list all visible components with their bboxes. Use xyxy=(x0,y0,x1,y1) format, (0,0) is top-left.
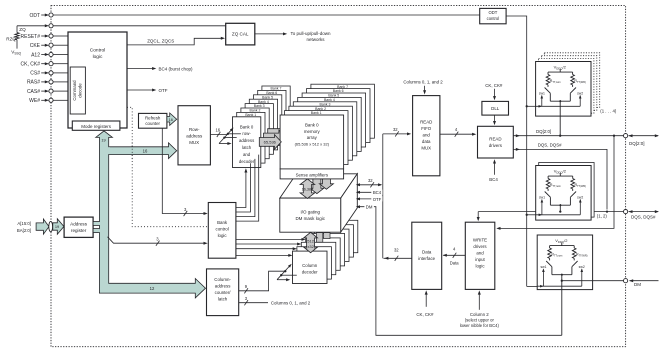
svg-text:address: address xyxy=(186,134,203,139)
terminal at border y=81.9 xyxy=(49,80,53,84)
svg-text:Data: Data xyxy=(450,261,460,266)
svg-text:12: 12 xyxy=(150,286,155,291)
svg-text:decode: decode xyxy=(77,83,82,98)
terminal at border y=72.9 xyxy=(49,71,53,75)
wire OTF output xyxy=(127,89,154,91)
svg-text:counter/: counter/ xyxy=(215,290,232,295)
svg-text:decoder: decoder xyxy=(239,159,255,164)
svg-text:DQ[2:0]: DQ[2:0] xyxy=(536,129,551,134)
bus 4 READ FIFO to READ drivers xyxy=(440,133,474,135)
svg-text:Address: Address xyxy=(70,221,88,226)
wire dotted over teal buses xyxy=(131,143,133,160)
wire bank control to latch stack verticals xyxy=(236,170,246,208)
svg-text:drivers: drivers xyxy=(489,143,503,148)
block Refresh counter xyxy=(139,113,167,128)
wire RAS# stub xyxy=(41,81,46,83)
wire address trunk to bank control 3 xyxy=(108,237,206,243)
svg-text:WE#: WE# xyxy=(29,98,40,104)
wire DQ read line xyxy=(513,135,623,137)
svg-text:interface: interface xyxy=(418,256,435,261)
svg-text:CK, CK#: CK, CK# xyxy=(21,62,41,68)
svg-text:(x32): (x32) xyxy=(306,244,316,249)
wire ZQCL ZQCS to ZQ CAL xyxy=(127,38,223,45)
svg-text:and: and xyxy=(243,152,251,157)
wire refresh counter to bank control 3 xyxy=(162,128,205,213)
wire ODT control into DQS network xyxy=(526,214,528,216)
bus vertical trunk with 19 arrow up and 12 arrow right xyxy=(96,131,206,298)
ODT network DQ xyxy=(536,62,591,117)
svg-text:RZQ: RZQ xyxy=(6,37,16,42)
wire OTF into I/O gating xyxy=(357,198,383,200)
svg-text:Bank 0: Bank 0 xyxy=(240,124,254,129)
wire DM pad line xyxy=(562,280,624,282)
svg-text:OTF: OTF xyxy=(159,88,168,93)
wire ZQ stub xyxy=(17,25,47,27)
svg-text:Mode registers: Mode registers xyxy=(81,124,112,129)
svg-text:MUX: MUX xyxy=(421,145,431,150)
block Column-address counter latch xyxy=(207,269,239,316)
svg-text:19: 19 xyxy=(101,137,105,142)
svg-text:lower nibble for BC4): lower nibble for BC4) xyxy=(460,323,500,328)
block DLL xyxy=(482,101,509,115)
svg-text:Bank 0: Bank 0 xyxy=(305,122,319,127)
svg-text:Bank 6: Bank 6 xyxy=(333,89,344,93)
svg-text:array: array xyxy=(307,135,318,140)
bus 16384 sliver arrows xyxy=(310,174,324,194)
wire CS# to control logic xyxy=(53,72,68,74)
svg-text:Bank 2: Bank 2 xyxy=(315,107,326,111)
wire dotted control to bank control logic xyxy=(127,107,208,226)
bus 32 I/O gating bidirectional xyxy=(357,184,381,186)
svg-text:32: 32 xyxy=(393,127,398,132)
svg-text:A[15:0]: A[15:0] xyxy=(17,221,31,226)
svg-text:MUX: MUX xyxy=(189,140,199,145)
svg-text:READ: READ xyxy=(489,137,501,142)
svg-text:32: 32 xyxy=(394,248,399,253)
ODT network DM xyxy=(537,235,592,290)
svg-text:ODT: ODT xyxy=(488,10,497,15)
wire ODT control into DQ network xyxy=(526,105,528,107)
svg-text:Refresh: Refresh xyxy=(145,115,161,120)
svg-text:logic: logic xyxy=(93,54,103,60)
ODT network DQ dashed stack xyxy=(544,53,599,108)
wire ODT control into DM network xyxy=(527,285,538,287)
svg-text:BC4: BC4 xyxy=(373,190,382,195)
svg-text:Data: Data xyxy=(422,250,432,255)
terminal DM xyxy=(624,279,628,283)
bus 19 into address register xyxy=(53,219,64,235)
svg-text:ZQ: ZQ xyxy=(19,27,26,32)
block bank row-address latch and memory array stacks xyxy=(262,86,290,137)
svg-text:RESET#: RESET# xyxy=(21,34,41,40)
svg-text:(65,536 x 512 x 32): (65,536 x 512 x 32) xyxy=(295,142,330,147)
svg-text:DM: DM xyxy=(634,282,641,287)
terminal at border y=45.2 xyxy=(49,43,53,47)
svg-text:CKE: CKE xyxy=(30,43,41,49)
bus 512 sliver stubs xyxy=(316,233,322,243)
wire RESET# stub xyxy=(41,35,46,37)
bus 65536 latch to array xyxy=(259,135,281,150)
bus address register to trunk stubs xyxy=(93,222,100,226)
svg-text:memory: memory xyxy=(304,129,321,134)
terminal at border y=36.0 xyxy=(49,34,53,38)
block READ FIFO and data MUX xyxy=(413,96,440,176)
svg-text:READ: READ xyxy=(420,119,432,124)
wire BC4 burst chop output xyxy=(127,68,154,70)
wire WE# stub xyxy=(41,99,46,101)
svg-text:CK, CK#: CK, CK# xyxy=(416,312,434,317)
svg-text:control: control xyxy=(487,16,500,21)
wire RAS# to control logic xyxy=(53,81,68,83)
wire RESET# to control logic xyxy=(53,35,68,37)
terminal at border y=63.7 xyxy=(49,62,53,66)
svg-text:sw1: sw1 xyxy=(539,91,545,95)
svg-text:DQ[2:0]: DQ[2:0] xyxy=(629,141,645,146)
svg-text:DLL: DLL xyxy=(491,106,500,111)
svg-text:Command: Command xyxy=(72,80,77,101)
wire DQ ODT tap xyxy=(559,100,561,136)
wire 9 to column decoder fan xyxy=(239,271,286,291)
block Address register xyxy=(64,217,93,237)
wire DQS ODT tap xyxy=(559,204,561,212)
svg-text:Control: Control xyxy=(90,47,105,53)
block Control logic xyxy=(68,32,127,128)
svg-text:CS#: CS# xyxy=(30,71,40,77)
wire ZQ CAL output xyxy=(255,33,285,35)
svg-text:logic: logic xyxy=(475,264,485,269)
wire CK, CK# to control logic xyxy=(53,63,68,65)
wire DM into I/O gating xyxy=(357,207,562,336)
block I/O gating DM mask logic xyxy=(280,174,358,198)
svg-text:19: 19 xyxy=(55,224,59,229)
ODT network DQS stack xyxy=(539,163,594,218)
wire A12 stub xyxy=(41,54,46,56)
svg-text:16: 16 xyxy=(143,148,148,153)
svg-text:Bank 3: Bank 3 xyxy=(254,104,265,108)
svg-text:Columns 0, 1, and 2: Columns 0, 1, and 2 xyxy=(403,79,443,84)
wire CK, CK# stub xyxy=(41,63,46,65)
terminal address bus xyxy=(49,221,53,231)
block Mode registers xyxy=(72,121,120,130)
block Column decoder bank 0 xyxy=(293,251,328,283)
svg-text:Sense amplifiers: Sense amplifiers xyxy=(296,172,329,177)
svg-text:row-: row- xyxy=(242,131,251,136)
wire BC4 into I/O gating xyxy=(357,191,383,193)
svg-text:Column-: Column- xyxy=(214,277,231,282)
wire column 2 into WRITE drivers xyxy=(478,293,480,310)
svg-text:register: register xyxy=(71,228,87,233)
svg-text:RAS#: RAS# xyxy=(27,80,40,86)
svg-text:To pull-up/pull-down: To pull-up/pull-down xyxy=(291,31,332,36)
block ZQ CAL xyxy=(226,23,255,45)
wire DQS pad line to WRITE drivers xyxy=(478,211,623,213)
svg-text:sw2: sw2 xyxy=(577,195,583,199)
block WRITE drivers and input logic xyxy=(465,222,495,289)
bus 16 refresh counter to MUX xyxy=(167,113,177,125)
svg-text:WRITE: WRITE xyxy=(473,238,487,243)
block Bank 0 row-address latch and decoder xyxy=(233,117,261,168)
wire ZQ down to RZQ xyxy=(16,26,18,33)
svg-text:DQS, DQS#: DQS, DQS# xyxy=(538,143,562,148)
svg-text:Column: Column xyxy=(302,263,318,268)
svg-text:Column 2: Column 2 xyxy=(470,312,489,317)
svg-text:FIFO: FIFO xyxy=(421,126,432,131)
svg-text:decoder: decoder xyxy=(302,270,318,275)
svg-text:A12: A12 xyxy=(31,52,40,58)
wire DQS read line xyxy=(513,149,607,209)
block Column decoder bank stack xyxy=(323,220,358,252)
terminal DQ xyxy=(624,134,628,138)
svg-text:sw2: sw2 xyxy=(579,265,585,269)
wire ODT to ODT control xyxy=(53,14,480,16)
svg-text:networks: networks xyxy=(306,37,325,42)
wire ODT stub xyxy=(41,14,46,16)
svg-text:counter: counter xyxy=(145,121,160,126)
terminal DQS xyxy=(624,210,628,214)
wire WE# to control logic xyxy=(53,99,68,101)
wire DM ODT tap down to DM mask line xyxy=(561,274,563,336)
svg-text:latch: latch xyxy=(218,297,228,302)
svg-text:DM: DM xyxy=(366,205,373,210)
wire CK into data interface xyxy=(425,293,427,307)
svg-text:sw1: sw1 xyxy=(540,265,546,269)
wire DLL to READ drivers xyxy=(494,115,496,123)
block Row-address MUX xyxy=(178,106,210,165)
wire CAS# stub xyxy=(41,90,46,92)
terminal at border y=91.1 xyxy=(49,89,53,93)
wire ZQ to ZQ CAL xyxy=(53,25,226,27)
svg-text:65,536: 65,536 xyxy=(264,140,277,145)
block READ drivers xyxy=(478,126,514,158)
block Data interface xyxy=(412,222,442,289)
svg-text:and: and xyxy=(476,251,484,256)
svg-text:DM mask logic: DM mask logic xyxy=(295,216,325,221)
bus 32 to data interface xyxy=(384,257,412,259)
svg-text:16: 16 xyxy=(215,128,220,133)
terminal at border y=15.0 xyxy=(49,13,53,17)
svg-text:I/O gating: I/O gating xyxy=(300,209,320,214)
block Bank control logic xyxy=(208,203,236,259)
svg-text:16: 16 xyxy=(169,117,173,122)
svg-text:ZQCL, ZQCS: ZQCL, ZQCS xyxy=(147,39,174,44)
wire 3 columns 012 stub xyxy=(239,302,268,304)
svg-text:CAS#: CAS# xyxy=(27,89,40,95)
svg-text:BA[2:0]: BA[2:0] xyxy=(17,228,31,233)
bus 32 vertical read-write xyxy=(382,134,384,258)
wire BC4 into READ drivers xyxy=(494,162,496,175)
svg-text:BC4: BC4 xyxy=(489,177,498,182)
svg-text:512: 512 xyxy=(307,239,314,244)
svg-text:address: address xyxy=(239,138,254,143)
wire CAS# to control logic xyxy=(53,90,68,92)
bus 4 data WRITE drivers to data interface xyxy=(443,254,465,256)
svg-text:32: 32 xyxy=(368,178,373,183)
wire CKE to control logic xyxy=(53,44,68,46)
wire A12 to control logic xyxy=(53,54,68,56)
svg-text:CK, CK#: CK, CK# xyxy=(485,83,503,88)
block Command decode xyxy=(70,67,85,114)
svg-text:sw2: sw2 xyxy=(577,91,583,95)
bus 512 x32 I/O gating to column decoder xyxy=(304,232,318,252)
svg-text:Bank 4: Bank 4 xyxy=(324,98,335,102)
svg-text:data: data xyxy=(422,139,431,144)
svg-text:control: control xyxy=(216,226,229,231)
block Sense amplifiers xyxy=(280,169,344,179)
svg-text:latch: latch xyxy=(242,145,252,150)
svg-text:sw1: sw1 xyxy=(539,195,545,199)
bus 32 to READ FIFO xyxy=(383,133,409,135)
wire CS# stub xyxy=(41,72,46,74)
svg-text:address: address xyxy=(215,284,231,289)
bus 16 row MUX to bank latches fan xyxy=(210,133,227,135)
svg-text:OTF: OTF xyxy=(373,197,382,202)
svg-text:and: and xyxy=(423,132,431,137)
wire RZQ to VSSQ xyxy=(16,40,18,49)
wire DQ write branch to WRITE drivers xyxy=(498,136,615,229)
svg-text:(1 . . . 4): (1 . . . 4) xyxy=(600,109,617,114)
svg-text:Bank 5: Bank 5 xyxy=(328,94,339,98)
svg-text:(1, 2): (1, 2) xyxy=(597,213,608,218)
svg-text:drivers: drivers xyxy=(473,244,487,249)
wire CK into DLL xyxy=(494,89,496,98)
svg-text:16,384: 16,384 xyxy=(302,188,314,192)
svg-text:ZQ CAL: ZQ CAL xyxy=(232,32,249,37)
block ODT control xyxy=(480,8,506,23)
wire CKE stub xyxy=(41,44,46,46)
ODT network DQS xyxy=(536,166,591,221)
svg-text:BC4 (burst chop): BC4 (burst chop) xyxy=(159,66,194,71)
block Bank 0 memory array xyxy=(280,115,344,169)
resistor RZQ xyxy=(15,33,19,40)
svg-text:Row-: Row- xyxy=(189,127,200,132)
terminal at border y=54.5 xyxy=(49,52,53,56)
svg-text:ODT: ODT xyxy=(29,13,40,19)
svg-text:logic: logic xyxy=(218,233,228,238)
svg-text:Columns 0, 1, and 2: Columns 0, 1, and 2 xyxy=(271,301,311,306)
wire ODT control output down right side xyxy=(506,16,527,286)
svg-text:DQS, DQS#: DQS, DQS# xyxy=(631,215,656,220)
svg-text:Bank: Bank xyxy=(217,220,228,225)
bus 16 to row-address MUX xyxy=(108,143,177,159)
svg-text:(select upper or: (select upper or xyxy=(465,318,495,323)
terminal at border y=25.8 xyxy=(49,24,53,28)
terminal at border y=100.3 xyxy=(49,98,53,102)
wire bank control to column decoders xyxy=(236,238,303,240)
bus 16384 sense amps to I/O gating xyxy=(300,179,315,199)
svg-text:input: input xyxy=(475,257,485,262)
